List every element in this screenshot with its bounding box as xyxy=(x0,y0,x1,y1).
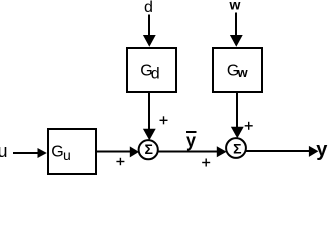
node d xyxy=(144,0,153,16)
svg-text:u: u xyxy=(63,147,71,163)
summing junction S1 xyxy=(139,140,158,159)
svg-text:d: d xyxy=(144,0,153,16)
summing junction S2 xyxy=(226,138,246,158)
node ybar label xyxy=(186,131,197,151)
svg-text:d: d xyxy=(151,65,160,82)
wire d to Gd xyxy=(143,15,156,47)
block Gu xyxy=(48,129,96,174)
svg-text:Σ: Σ xyxy=(144,141,152,157)
block Gd xyxy=(127,48,176,92)
plus sign at sum1 left xyxy=(116,158,124,165)
wire u to Gu xyxy=(13,148,47,158)
node w xyxy=(229,0,241,13)
node y output label xyxy=(316,139,328,161)
block Gw xyxy=(213,48,262,92)
svg-text:Σ: Σ xyxy=(233,140,241,156)
svg-text:y: y xyxy=(316,139,328,161)
plus sign at sum2 top xyxy=(245,122,253,130)
wire Gw to sum2 xyxy=(231,93,244,138)
wire Gd to sum1 xyxy=(143,93,156,140)
wire Gu to sum1 xyxy=(97,146,139,157)
wire sum2 to y xyxy=(246,146,319,157)
wire w to Gw xyxy=(230,13,243,47)
svg-text:w: w xyxy=(237,65,249,80)
svg-text:G: G xyxy=(51,143,63,160)
plus sign at sum2 left xyxy=(202,159,210,167)
wire sum1 to sum2 xyxy=(158,146,227,157)
node u xyxy=(0,141,8,161)
svg-text:y: y xyxy=(186,131,196,151)
svg-text:u: u xyxy=(0,141,8,161)
plus sign at sum1 top xyxy=(160,116,168,124)
svg-text:w: w xyxy=(229,0,241,13)
